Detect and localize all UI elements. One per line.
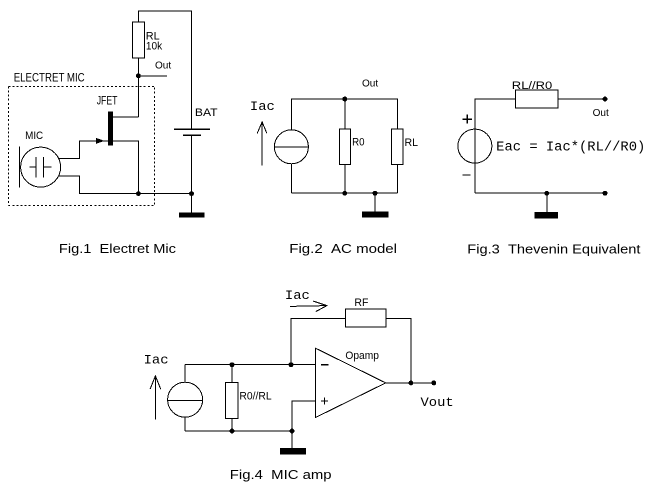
plus sign at non-inverting input (Fig.4)	[321, 400, 328, 402]
voltage source Eac circle (Fig.3)	[458, 129, 492, 163]
svg-text:Iac: Iac	[144, 352, 169, 367]
svg-text:Fig.4 MIC amp: Fig.4 MIC amp	[230, 467, 332, 482]
wire: Fig.4 feedback right segment down to output	[386, 318, 411, 383]
wire: battery bottom to ground stub	[191, 135, 193, 212]
node: dot feedback junction minus input (Fig.4)	[289, 362, 294, 367]
wire: R0 bottom	[344, 164, 346, 193]
wire: gate lead with arrow from MIC	[59, 141, 109, 159]
wire: ground stub (Fig.2)	[374, 193, 376, 211]
wire: R0//RL top lead (Fig.4)	[231, 365, 233, 383]
svg-text:ELECTRET MIC: ELECTRET MIC	[14, 71, 85, 85]
wire: JFET drain lead	[113, 116, 138, 118]
battery BAT short plate	[183, 134, 201, 136]
arrow Iac (Fig.4 top)	[290, 305, 327, 308]
ground (Fig.2)	[362, 212, 389, 218]
wire: RL bottom through Out node down to JFET drain corner	[137, 58, 139, 117]
svg-text:R0//RL: R0//RL	[239, 391, 271, 403]
capacitor inside MIC: left lead	[29, 166, 36, 168]
wire: Fig.2 top rail	[291, 99, 397, 130]
minus sign at inverting input (Fig.4)	[321, 364, 329, 366]
wire: Fig.4 inverting input rail	[185, 364, 315, 366]
wire: Fig.2 R0 branch top	[344, 99, 346, 129]
arrow Iac (Fig.4 left)	[154, 376, 156, 420]
plus sign (Fig.3)	[462, 118, 472, 120]
wire: plus input path (Fig.4)	[292, 401, 315, 431]
microphone MIC left line	[18, 146, 20, 187]
battery BAT long plate	[174, 128, 210, 130]
wire: Fig.3 top rail left of resistor	[475, 99, 516, 193]
current source Iac circle (Fig.4)	[168, 382, 203, 417]
capacitor right lead	[44, 166, 52, 168]
resistor R0 (Fig.2)	[340, 129, 351, 165]
svg-text:BAT: BAT	[195, 107, 218, 119]
node: junction dot bottom rail (Fig.1)	[136, 191, 141, 196]
wire: Fig.3 bottom rail	[475, 192, 605, 194]
svg-text:Iac: Iac	[250, 99, 275, 114]
wire: Fig.2 bottom rail	[291, 192, 397, 194]
node: dot ground junction (Fig.2)	[373, 191, 378, 196]
microphone MIC circle	[21, 147, 61, 187]
wire: op-amp output (Fig.4)	[386, 382, 434, 384]
svg-text:RF: RF	[354, 297, 368, 309]
wire: R0//RL bottom lead (Fig.4)	[231, 419, 233, 432]
wire: JFET source lead down to bottom rail	[113, 141, 138, 194]
svg-text:Out: Out	[155, 60, 171, 72]
svg-text:Iac: Iac	[285, 288, 310, 303]
wire: Fig.2 left branch bottom	[290, 164, 292, 193]
wire: ground stub (Fig.3)	[546, 193, 548, 212]
ground (Fig.1)	[179, 213, 205, 218]
wire: source top vertical (Fig.4)	[184, 365, 186, 383]
wire: Fig.4 bottom rail	[185, 430, 292, 432]
svg-text:Fig.2 AC model: Fig.2 AC model	[289, 241, 397, 256]
svg-text:Opamp: Opamp	[345, 350, 379, 362]
resistor RF (Fig.4)	[346, 309, 387, 327]
svg-text:Out: Out	[593, 107, 609, 119]
svg-text:Fig.1 Electret Mic: Fig.1 Electret Mic	[59, 241, 177, 256]
gate arrowhead (Fig.1 JFET)	[96, 138, 104, 144]
svg-text:JFET: JFET	[97, 94, 118, 108]
op-amp triangle (Fig.4)	[315, 348, 385, 418]
current source Iac circle (Fig.2)	[274, 130, 308, 164]
ground (Fig.3)	[535, 212, 559, 219]
wire: ground stub (Fig.4)	[291, 431, 293, 448]
capacitor plate left	[35, 157, 37, 177]
minus sign (Fig.3)	[462, 174, 470, 176]
wire: source bottom vertical (Fig.4)	[184, 417, 186, 431]
wire: MIC lower lead to bottom rail	[59, 176, 139, 193]
resistor RL (Fig.1)	[132, 22, 144, 58]
wire: Fig.1 top rail from RL top to BAT top	[138, 11, 191, 129]
node: Vout end dot (Fig.4)	[431, 380, 436, 385]
svg-text:10k: 10k	[146, 41, 163, 53]
node: dot feedback/output junction (Fig.4)	[408, 380, 413, 385]
node: dot R0 bottom (Fig.2)	[342, 191, 347, 196]
node: Out junction dot (Fig.1)	[136, 73, 141, 78]
dashed enclosure ELECTRET MIC box	[8, 86, 154, 205]
svg-text:RL//R0: RL//R0	[512, 80, 553, 92]
wire: Fig.1 bottom rail to battery	[138, 193, 191, 195]
svg-text:Out: Out	[362, 78, 378, 90]
node: dot R0//RL top (Fig.4)	[230, 362, 235, 367]
node: dot ground junction (Fig.3)	[544, 191, 549, 196]
capacitor plate right	[43, 157, 45, 177]
current source chord (Fig.4)	[168, 399, 203, 401]
ground (Fig.4)	[280, 448, 306, 455]
wire: Fig.3 top rail right of resistor	[558, 98, 605, 100]
svg-text:RL: RL	[405, 137, 419, 149]
current source chord (Fig.2)	[274, 146, 308, 148]
node: Out dot (Fig.2)	[342, 97, 347, 102]
node: dot ground junction (Fig.4)	[290, 429, 295, 434]
resistor RL (Fig.2)	[392, 129, 404, 165]
transistor JFET channel bar	[108, 111, 113, 145]
arrow Iac (Fig.2)	[261, 122, 263, 165]
node: end dot bottom right (Fig.3)	[603, 191, 608, 196]
node: junction dot at battery bottom (Fig.1)	[189, 191, 194, 196]
svg-text:Fig.3 Thevenin Equivalent: Fig.3 Thevenin Equivalent	[467, 241, 641, 256]
svg-text:R0: R0	[352, 137, 364, 149]
wire: Fig.4 feedback left segment	[291, 318, 346, 364]
node: Out end dot (Fig.3)	[603, 97, 608, 102]
resistor R0//RL (Fig.4)	[226, 382, 238, 418]
svg-text:MIC: MIC	[25, 130, 43, 142]
svg-text:Eac = Iac*(RL//R0): Eac = Iac*(RL//R0)	[496, 141, 645, 156]
wire: RL bottom (Fig.2)	[396, 164, 398, 193]
svg-text:Vout: Vout	[421, 395, 454, 410]
node: dot R0//RL bottom (Fig.4)	[230, 429, 235, 434]
wire: Out stub (Fig.1)	[138, 75, 167, 77]
resistor RL//R0 (Fig.3)	[516, 90, 559, 108]
